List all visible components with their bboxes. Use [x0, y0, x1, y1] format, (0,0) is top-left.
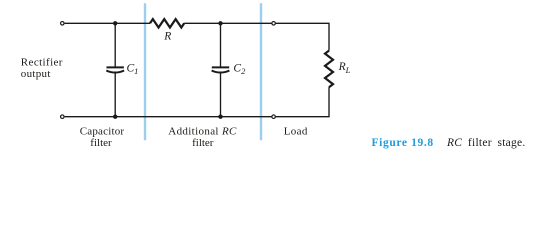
svg-text:C1: C1: [127, 62, 139, 76]
svg-text:RC filter stage.: RC filter stage.: [446, 137, 526, 149]
terminal: rectifier output bottom (open circle): [61, 115, 65, 119]
terminal: rectifier output top (open circle): [61, 22, 65, 26]
svg-text:output: output: [21, 68, 51, 80]
capacitor C1 (curved bottom plate): [106, 71, 124, 73]
wire: top-middle horizontal segment: [184, 22, 271, 24]
wire: bottom-right horizontal segment: [276, 116, 330, 118]
section divider line (left, light blue): [144, 3, 146, 140]
svg-text:R: R: [163, 30, 171, 42]
wire: C1 branch upper: [114, 23, 116, 66]
svg-text:Additional RC: Additional RC: [168, 126, 237, 138]
junction dot: bottom node of C2: [218, 115, 222, 119]
terminal: load connection top (open circle): [272, 22, 276, 26]
capacitor C2 (curved bottom plate): [212, 71, 230, 73]
wire: C1 branch lower: [114, 73, 116, 117]
svg-text:RL: RL: [338, 61, 351, 75]
svg-text:Figure 19.8: Figure 19.8: [372, 137, 434, 149]
capacitor C1 (straight top plate): [107, 66, 124, 68]
svg-text:filter: filter: [90, 137, 112, 149]
svg-text:Capacitor: Capacitor: [80, 126, 125, 138]
resistor RL (vertical zigzag): [325, 51, 333, 88]
capacitor C2 (straight top plate): [212, 66, 229, 68]
wire: bottom horizontal segment: [65, 116, 272, 118]
wire: top-left horizontal segment: [65, 22, 150, 24]
terminal: load connection bottom (open circle): [272, 115, 276, 119]
svg-text:Rectifier: Rectifier: [21, 57, 63, 69]
svg-text:filter: filter: [192, 137, 214, 149]
junction dot: top node of C2: [218, 21, 222, 25]
wire: top-right corner down to load resistor: [276, 23, 329, 50]
wire: right side below load resistor: [328, 87, 330, 117]
svg-text:C2: C2: [233, 62, 246, 76]
wire: C2 branch upper: [220, 23, 222, 66]
junction dot: top node of C1: [113, 21, 117, 25]
svg-text:Load: Load: [284, 126, 308, 138]
resistor R (horizontal zigzag): [150, 19, 184, 27]
wire: C2 branch lower: [220, 73, 222, 117]
section divider line (right, light blue): [260, 3, 262, 140]
junction dot: bottom node of C1: [113, 115, 117, 119]
